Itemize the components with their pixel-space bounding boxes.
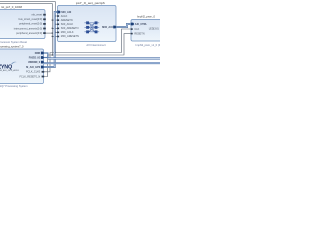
block ps7_0_axi_periph (AXI Interconnect) [58, 1, 117, 47]
svg-text:M00_AXI: M00_AXI [102, 26, 113, 29]
svg-text:M00_ARESETN: M00_ARESETN [61, 35, 79, 38]
svg-text:LED[3:0]: LED[3:0] [149, 28, 159, 31]
wire FCLK_CLK0 top feedback loop [0, 2, 55, 53]
bus FIXED_IO stub [44, 57, 49, 59]
svg-text:ps7_0_axi_periph: ps7_0_axi_periph [76, 1, 106, 5]
svg-text:ARESETN: ARESETN [61, 19, 73, 22]
svg-text:FIXED_IO: FIXED_IO [29, 56, 40, 59]
rst port peripheral_reset[0:0] [19, 23, 46, 26]
rst port mb_reset [32, 14, 46, 17]
wire peripheral_aresetn from rst [45, 32, 52, 34]
svg-text:RESETN: RESETN [134, 32, 144, 35]
junction dots [52, 15, 56, 55]
svg-text:FCLK_CLK0: FCLK_CLK0 [26, 71, 41, 74]
pwm port CLK [131, 28, 140, 31]
rst port bus_struct_reset[0:0] [19, 18, 46, 21]
svg-text:S00_AXI: S00_AXI [61, 11, 71, 14]
rst port peripheral_aresetn[0:0] [16, 32, 46, 35]
block processing_system7_0 (ZYNQ7 Processing System) [0, 44, 44, 88]
svg-text:USBIND_0: USBIND_0 [28, 61, 41, 64]
svg-text:ImpN2_pwm_v1_0 (Pre: ImpN2_pwm_v1_0 (Pre [136, 43, 161, 47]
wire aresetn stubs to ARESETN pins [52, 20, 57, 36]
bus S00_AXI (M_AXI_GP0 to interconnect) [44, 12, 58, 67]
svg-text:ACLK: ACLK [61, 15, 68, 18]
svg-text:Processor System Reset: Processor System Reset [0, 40, 27, 44]
axi port M00_AXI [102, 26, 116, 29]
wire clk stubs to ACLK pins [55, 16, 57, 32]
svg-text:S00_ARESETN: S00_ARESETN [61, 27, 79, 30]
bus DDR/FIXED_IO run to right edge [48, 58, 160, 60]
svg-text:DDR: DDR [35, 52, 41, 55]
svg-text:rst_ps7_0_100M: rst_ps7_0_100M [1, 5, 22, 9]
svg-text:mb_reset: mb_reset [32, 14, 43, 17]
svg-text:M_AXI_GP0_ACLK: M_AXI_GP0_ACLK [0, 69, 20, 72]
ps7 port FCLK_CLK0 [26, 71, 44, 74]
block ImpN2_pwm_0 (PWM IP) [131, 15, 165, 47]
svg-text:peripheral_reset[0:0]: peripheral_reset[0:0] [19, 23, 42, 26]
svg-text:bus_struct_reset[0:0]: bus_struct_reset[0:0] [19, 18, 43, 21]
ps7 port M_AXI_GP0 [26, 66, 44, 69]
svg-text:FCLK_RESET0_N: FCLK_RESET0_N [19, 75, 40, 78]
wire FCLK_RESET0_N / peripheral_aresetn bottom run to pwm RESETN [44, 34, 131, 77]
bus USBIND_0 run to right edge [44, 63, 160, 64]
background [0, 0, 160, 90]
svg-text:processing_system7_0: processing_system7_0 [0, 44, 24, 48]
axi port S00_ARESETN [57, 27, 79, 30]
svg-text:AXI_CTRL: AXI_CTRL [135, 23, 148, 26]
svg-text:ImpN2_pwm_0: ImpN2_pwm_0 [137, 15, 156, 19]
ps7 port FIXED_IO [29, 56, 44, 59]
svg-text:ZYNQ7 Processing System: ZYNQ7 Processing System [0, 84, 28, 88]
pwm port AXI_CTRL [131, 23, 148, 26]
ps7 port USBIND_0 [28, 61, 44, 64]
svg-text:peripheral_aresetn[0:0]: peripheral_aresetn[0:0] [16, 32, 42, 35]
wire FCLK_RESET0_N top feedback loop [0, 4, 52, 55]
svg-text:M00_ACLK: M00_ACLK [61, 31, 74, 34]
axi interconnect crossbar icon [84, 23, 99, 32]
svg-text:M_AXI_GP0: M_AXI_GP0 [26, 66, 41, 69]
block rst_ps7_0_100M (Processor System Reset) [0, 5, 45, 44]
pwm port RESETN [131, 32, 145, 35]
svg-text:interconnect_aresetn[0:0]: interconnect_aresetn[0:0] [14, 27, 43, 30]
bus DDR jog [44, 53, 48, 59]
svg-text:AXI Interconnect: AXI Interconnect [86, 43, 105, 47]
svg-text:S00_ACLK: S00_ACLK [61, 23, 74, 26]
wire FCLK_CLK0 main run to pwm CLK [44, 29, 131, 72]
axi port ARESETN [57, 19, 73, 22]
rst port interconnect_aresetn[0:0] [14, 27, 46, 30]
axi port S00_AXI [57, 11, 72, 14]
ps7 port DDR [35, 52, 44, 55]
axi port S00_ACLK [57, 23, 74, 26]
axi port M00_ACLK [57, 31, 74, 34]
bus M00_AXI (interconnect to pwm AXI_CTRL) [116, 24, 131, 27]
ps7 port FCLK_RESET0_N [19, 75, 44, 78]
axi port ACLK [57, 15, 68, 18]
axi port M00_ARESETN [57, 35, 79, 38]
svg-text:CLK: CLK [134, 28, 139, 31]
